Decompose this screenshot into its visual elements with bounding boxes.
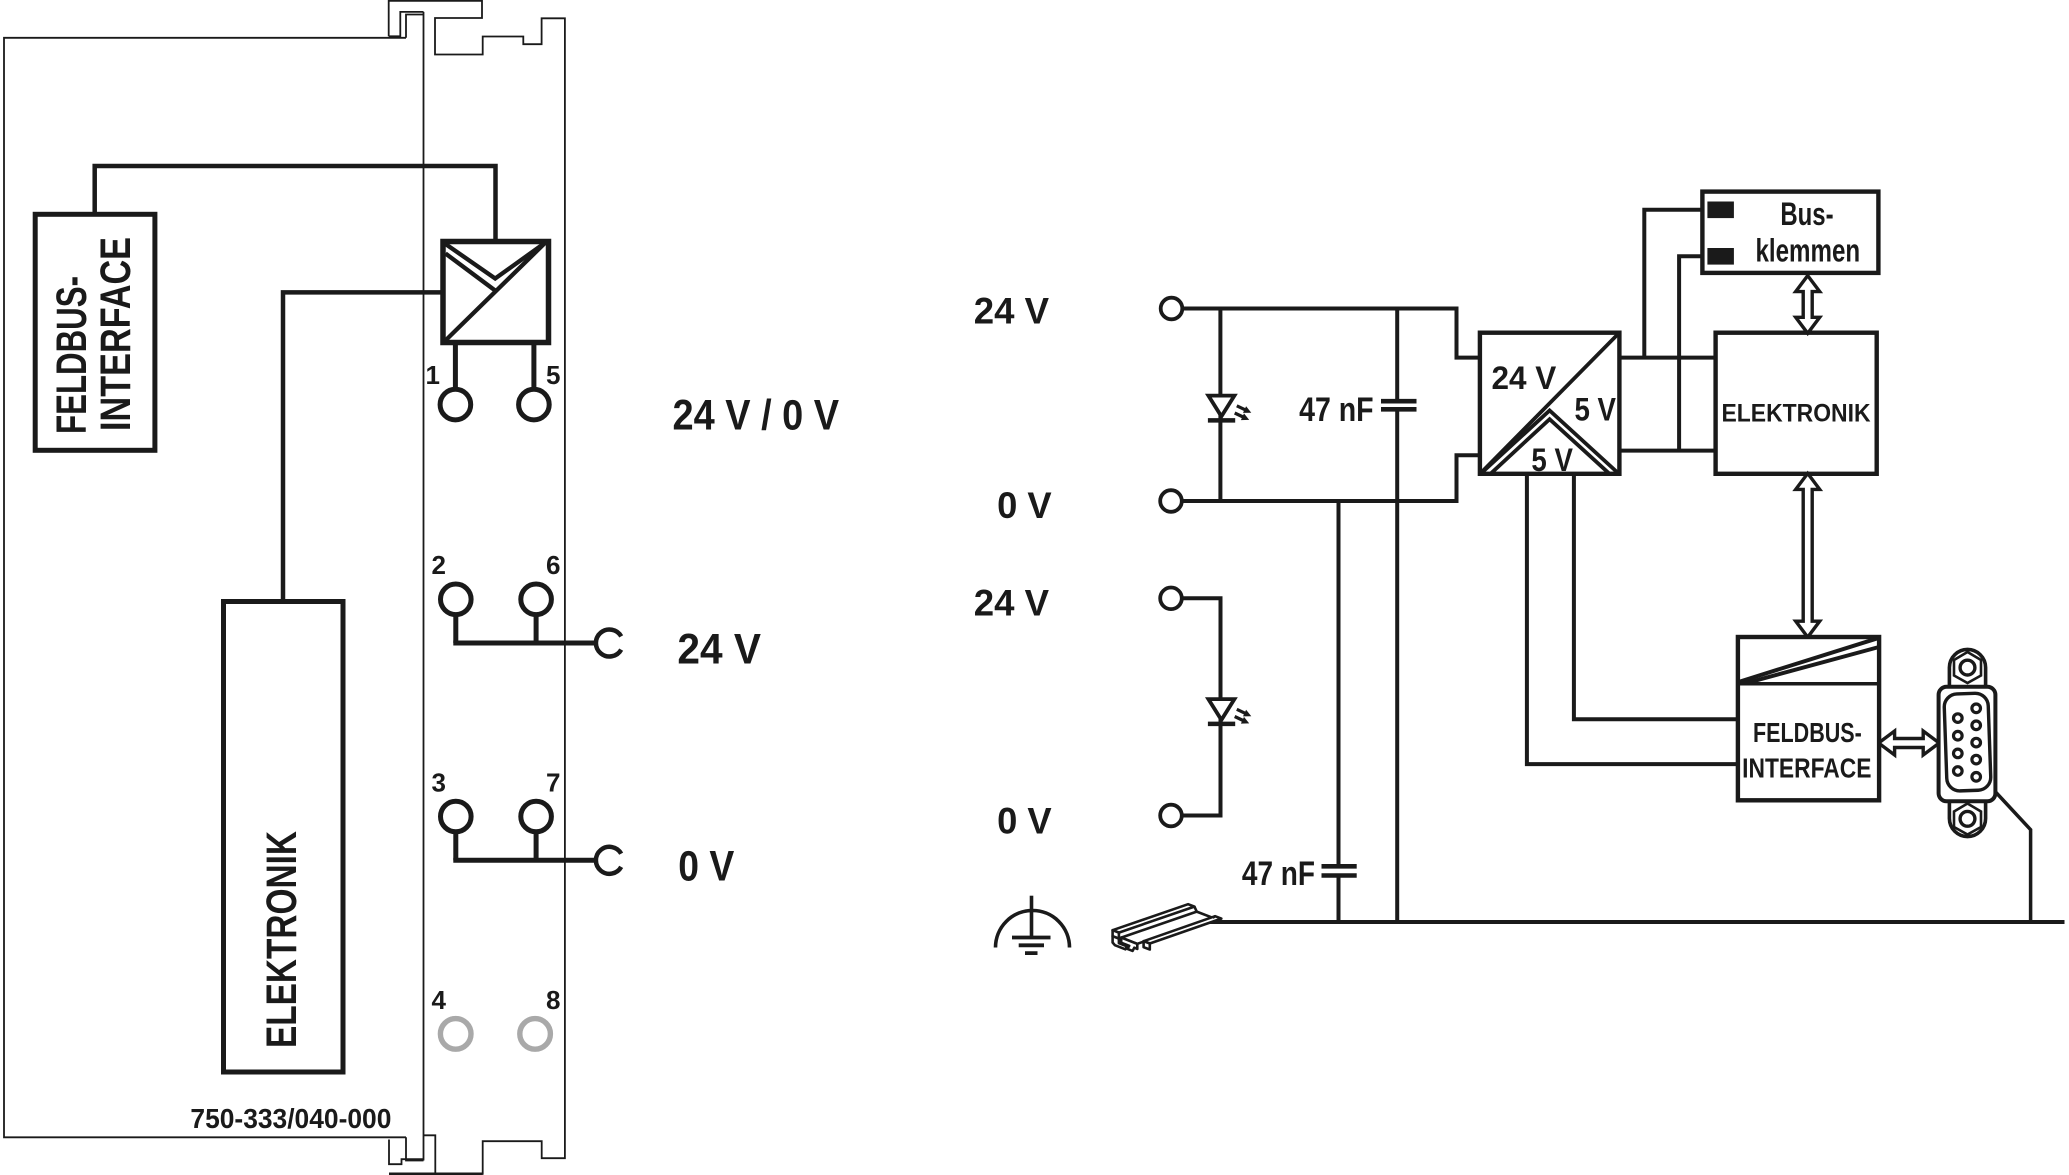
D-sub X1 top hex nut — [1954, 652, 1981, 683]
svg-text:5 V: 5 V — [1531, 442, 1573, 478]
ground rail bus — [1206, 920, 2065, 924]
DC-DC chevron outer — [1482, 411, 1618, 474]
LED D2 triangle — [1208, 699, 1234, 720]
svg-text:47 nF: 47 nF — [1242, 855, 1315, 893]
feldbus-interface band line — [1738, 682, 1879, 686]
LED D1 cathode bar — [1208, 418, 1235, 423]
DC-DC chevron inner — [1491, 419, 1610, 474]
pin 7 stub — [534, 832, 539, 861]
power contact box — [443, 242, 549, 343]
DC-DC diagonal — [1482, 335, 1618, 472]
svg-text:0 V: 0 V — [678, 842, 734, 890]
ground symbol bars — [1012, 938, 1051, 954]
module top latch inner — [406, 15, 424, 38]
pin 2 contact — [441, 584, 472, 615]
pin 7 contact — [521, 801, 552, 832]
0V bus bar — [453, 858, 597, 863]
LED D1 light arrows — [1235, 406, 1246, 417]
feldbus-interface block (module) — [35, 214, 155, 450]
module inner edge line — [423, 12, 425, 1161]
svg-text:24 V / 0 V: 24 V / 0 V — [673, 391, 840, 439]
svg-text:2: 2 — [432, 550, 446, 580]
capacitor C2 47nF plates — [1322, 866, 1357, 875]
LED D1 triangle — [1208, 396, 1234, 417]
LED D2 light arrows — [1235, 709, 1246, 720]
svg-text:6: 6 — [546, 550, 560, 580]
DIN rail left wall front face — [1113, 930, 1119, 938]
svg-text:47 nF: 47 nF — [1299, 391, 1374, 429]
pin 2 stub — [453, 615, 458, 643]
D-sub X1 face — [1944, 693, 1991, 791]
pin 4 contact (unused) — [440, 1019, 471, 1050]
pin 5 contact — [519, 389, 550, 420]
DIN rail floor front face — [1121, 938, 1137, 951]
svg-text:24 V: 24 V — [974, 291, 1050, 332]
DIN rail channel floor face — [1121, 912, 1213, 944]
svg-text:5: 5 — [546, 360, 560, 390]
24V socket hook — [596, 630, 621, 657]
feldbus-interface band diagonal upper — [1739, 638, 1878, 682]
feldbus-interface box — [1738, 637, 1879, 800]
wire branch to busklemmen pad2 — [1679, 256, 1709, 450]
pin 8 contact (unused) — [520, 1019, 551, 1050]
svg-text:24 V: 24 V — [677, 626, 761, 674]
D-sub X1 bottom screw — [1960, 811, 1975, 826]
wire D-sub shield to rail — [1990, 786, 2031, 922]
svg-text:24 V: 24 V — [974, 582, 1050, 623]
pin 3 stub — [453, 832, 458, 861]
D-sub X1 top screw — [1960, 660, 1975, 675]
wire feldbus-interface to power contact — [95, 166, 496, 240]
svg-text:klemmen: klemmen — [1756, 232, 1861, 268]
data arrow busklemmen-elektronik — [1796, 276, 1820, 334]
busklemmen box — [1702, 192, 1878, 273]
module housing outline (left device profile) — [389, 1, 565, 1174]
module bottom foot line — [389, 1173, 483, 1175]
svg-text:750-333/040-000: 750-333/040-000 — [190, 1103, 391, 1134]
D-sub X1 top ear — [1949, 649, 1985, 689]
pin 5 stub — [531, 344, 536, 390]
module bottom step — [406, 1137, 424, 1160]
wire LED1 branch — [1218, 309, 1222, 502]
wire capacitor C1 bottom to rail — [1395, 411, 1399, 922]
svg-text:0 V: 0 V — [997, 485, 1052, 526]
svg-text:ELEKTRONIK: ELEKTRONIK — [1722, 400, 1872, 428]
capacitor C1 47nF plates — [1381, 401, 1417, 409]
ground symbol stem — [1030, 896, 1034, 938]
wire field supply loop — [1182, 598, 1221, 815]
D-sub X1 body — [1939, 687, 1996, 802]
wire branch to busklemmen pad1 — [1644, 210, 1709, 358]
D-sub X1 socket holes — [1954, 704, 1981, 781]
wire elektronik to power contact — [283, 292, 442, 601]
wire DC-DC to feldbus-interface lower — [1527, 474, 1738, 764]
svg-text:FELDBUS-: FELDBUS- — [48, 276, 96, 434]
power contact chevron inner — [446, 243, 546, 279]
wire DC-DC to feldbus-interface upper — [1574, 474, 1738, 719]
terminal 0V system — [1160, 490, 1182, 512]
pin 1 stub — [453, 344, 458, 390]
24V bus bar — [453, 641, 597, 646]
wire DC-DC to elektronik upper — [1619, 356, 1715, 360]
ground symbol dome — [996, 911, 1070, 948]
wire capacitor C2 top — [1337, 501, 1341, 865]
module bottom latch — [389, 1140, 424, 1165]
svg-text:Bus-: Bus- — [1780, 196, 1833, 232]
svg-text:FELDBUS-: FELDBUS- — [1753, 717, 1862, 748]
svg-text:INTERFACE: INTERFACE — [1742, 752, 1871, 783]
busklemmen pad 2 — [1707, 248, 1734, 265]
module body thin box — [4, 38, 406, 1138]
D-sub X1 bottom ear — [1949, 799, 1985, 837]
module top latch outer — [389, 12, 424, 36]
svg-text:8: 8 — [546, 985, 560, 1015]
power contact diagonal — [444, 243, 545, 342]
svg-text:5 V: 5 V — [1575, 392, 1617, 428]
wire capacitor C2 bottom to rail — [1337, 878, 1341, 923]
svg-text:0 V: 0 V — [997, 801, 1052, 842]
svg-text:4: 4 — [432, 985, 447, 1015]
DC-DC converter box — [1480, 333, 1620, 474]
DIN rail left wall top face — [1113, 904, 1195, 932]
pin 3 contact — [441, 801, 472, 832]
DIN rail back end edges — [1194, 907, 1215, 918]
svg-text:3: 3 — [432, 768, 446, 798]
terminal 24V field — [1160, 588, 1182, 610]
feldbus-interface band diagonal lower — [1745, 647, 1880, 684]
wire 24V system to DC-DC — [1183, 309, 1479, 358]
elektronik block (module) — [224, 602, 344, 1073]
DIN rail right wall front face — [1144, 941, 1150, 949]
svg-text:ELEKTRONIK: ELEKTRONIK — [258, 831, 306, 1048]
svg-text:24 V: 24 V — [1492, 360, 1557, 396]
0V socket hook — [596, 847, 621, 874]
LED D2 cathode bar — [1208, 722, 1235, 727]
pin 1 contact — [440, 389, 471, 420]
DIN rail foot — [1113, 936, 1127, 949]
busklemmen pad 1 — [1707, 202, 1734, 219]
data arrow feldbus-dsub — [1879, 731, 1940, 755]
wire 0V system to DC-DC — [1182, 455, 1478, 501]
power contact chevron outer leg — [446, 254, 496, 292]
pin 6 stub — [534, 615, 539, 643]
terminal 24V system — [1161, 298, 1183, 320]
data arrow elektronik-feldbus — [1796, 473, 1820, 637]
wire DC-DC to elektronik lower — [1619, 449, 1715, 453]
terminal 0V field — [1160, 805, 1182, 827]
svg-text:1: 1 — [426, 360, 440, 390]
svg-text:INTERFACE: INTERFACE — [92, 237, 140, 431]
DIN rail right wall top face — [1144, 916, 1222, 943]
svg-text:7: 7 — [546, 768, 560, 798]
pin 6 contact — [521, 584, 552, 615]
elektronik box — [1716, 333, 1877, 474]
wire capacitor C1 top — [1395, 309, 1399, 400]
D-sub X1 bottom hex nut — [1954, 804, 1981, 835]
